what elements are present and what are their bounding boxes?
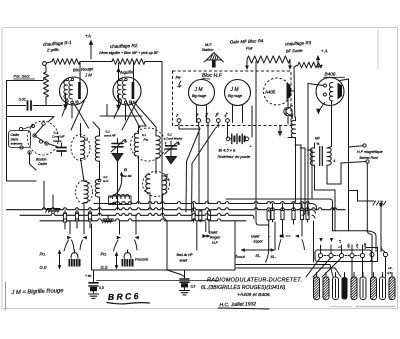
svg-text:B R C 6: B R C 6 xyxy=(108,291,139,302)
wire switch to coil xyxy=(48,144,58,148)
resistor stub I xyxy=(282,204,284,211)
ground C2 xyxy=(184,288,186,290)
arrow V2 cathode xyxy=(118,95,120,106)
ground C1 xyxy=(93,291,95,293)
grid coil box xyxy=(109,196,132,205)
wire V2 plate lead xyxy=(133,62,135,83)
push button 2 xyxy=(124,253,131,259)
wire HT line to ground xyxy=(226,198,330,200)
svg-text:+ 4o: + 4o xyxy=(85,274,92,278)
MF stub symbol xyxy=(207,53,222,61)
capacitor C 0.5 no1 xyxy=(93,270,95,282)
rotary switch cadre xyxy=(28,121,59,155)
strip labels xyxy=(319,238,322,242)
wire bundle to bus xyxy=(295,138,297,201)
svg-text:Pot. Secr.: Pot. Secr. xyxy=(14,74,31,79)
wire +A bus xyxy=(80,61,112,63)
svg-text:Cadre: Cadre xyxy=(53,139,62,143)
wire bend x256 xyxy=(256,222,269,225)
wire CV1 drop xyxy=(117,162,119,210)
svg-text:Galet: Galet xyxy=(209,231,218,235)
svg-text:Coup: Coup xyxy=(292,113,294,119)
wire bundle jogs top xyxy=(288,137,296,139)
resistor stub F xyxy=(208,210,210,211)
wire x268 down xyxy=(268,226,270,249)
svg-text:+A409 et B408.: +A409 et B408. xyxy=(237,292,271,298)
variable capacitor CV2 xyxy=(170,141,172,145)
left margin mark xyxy=(5,282,7,310)
coil L7 xyxy=(146,174,150,192)
resistor stub E xyxy=(199,210,201,211)
wire pile plus lead xyxy=(251,106,253,137)
tube V4 JM xyxy=(225,80,251,106)
svg-text:l’intérieur du poste: l’intérieur du poste xyxy=(218,154,251,159)
wire bus line 4 xyxy=(40,219,246,221)
wire L3 top xyxy=(99,129,101,136)
terminal strip xyxy=(315,250,372,262)
svg-text:6L.(3BIGRILLES ROUGES)(1941N): 6L.(3BIGRILLES ROUGES)(1941N) xyxy=(201,285,286,291)
wire heater link xyxy=(100,115,142,117)
resistor stub L xyxy=(307,204,309,211)
wire drops left xyxy=(43,181,45,210)
svg-text:Boul du HP: Boul du HP xyxy=(177,253,194,257)
wire R4 leads xyxy=(246,60,248,67)
wire diagonal drop 1 xyxy=(186,127,200,212)
wire R2 to dropper xyxy=(145,61,162,63)
svg-text:Écout: Écout xyxy=(235,254,246,259)
resistor R3 xyxy=(298,62,322,68)
svg-text:Regen: Regen xyxy=(210,236,220,240)
ground left chassis xyxy=(52,206,54,208)
wire V6 cathode down xyxy=(331,102,333,147)
grid coil horizontal xyxy=(112,195,129,199)
wire xfmr to terminals xyxy=(315,189,336,191)
svg-text:B406: B406 xyxy=(325,72,336,77)
potentiometer vertical resistor xyxy=(44,72,49,97)
wire strip diagonals xyxy=(306,258,321,277)
svg-text:Aiguille: Aiguille xyxy=(119,69,134,75)
resistor stub B xyxy=(76,210,78,212)
svg-text:4,5: 4,5 xyxy=(387,271,392,275)
tube V6 B406 xyxy=(316,78,344,106)
resistor stub G xyxy=(268,210,270,211)
wire L6 top xyxy=(155,127,157,136)
wire L7-L8 bottoms xyxy=(149,193,151,210)
wire L3-L4 xyxy=(99,161,101,180)
wire V1 pin leads xyxy=(62,102,68,116)
tube V3 JM xyxy=(189,80,215,106)
wire L6 bottom xyxy=(155,158,157,174)
svg-text:Ẹt: Ẹt xyxy=(124,168,127,172)
arrow V2 grid return xyxy=(118,63,120,80)
svg-text:M.F.: M.F. xyxy=(205,43,212,47)
svg-text:antennes: antennes xyxy=(11,142,23,146)
switch lever xyxy=(35,136,47,144)
wire coupling xyxy=(295,117,297,121)
wire L5 bottom xyxy=(138,156,140,204)
svg-text:⅓: ⅓ xyxy=(317,142,320,146)
coil L3 xyxy=(95,136,99,161)
svg-text:J M: J M xyxy=(194,87,204,93)
ground top right xyxy=(357,199,359,201)
svg-text:Big rouge: Big rouge xyxy=(192,94,206,98)
wire bus line 2 xyxy=(7,208,346,210)
svg-text:...: ... xyxy=(268,234,271,238)
svg-text:G.O: G.O xyxy=(103,179,109,183)
arrow Po-GO 2 xyxy=(116,255,118,266)
resistor R4 xyxy=(247,56,290,63)
variable capacitor CV1 xyxy=(117,139,119,144)
wire frame bottom xyxy=(7,180,37,182)
wire bus line 1 xyxy=(94,202,312,204)
svg-text:+120: +120 xyxy=(363,243,367,249)
svg-text:-4: -4 xyxy=(333,159,336,163)
oscillator coil pair PA dashed xyxy=(131,128,166,161)
node antenna terminal xyxy=(43,62,47,66)
svg-text:0,1: 0,1 xyxy=(142,133,146,137)
svg-text:Bloc H.F: Bloc H.F xyxy=(202,73,223,79)
coil L1 in dashed ellipse xyxy=(71,135,90,161)
svg-text:Pe: Pe xyxy=(176,75,182,80)
wire V1 plate lead xyxy=(79,62,81,83)
wire diagonal drop 2 xyxy=(192,127,217,212)
switch contact PO 2 xyxy=(83,215,85,234)
terminal circle right xyxy=(383,252,387,256)
battery cells xyxy=(314,277,320,300)
arrow V1 cathode xyxy=(65,93,67,105)
svg-text:H.P magnétique: H.P magnétique xyxy=(357,150,383,154)
arrow Po-GO 1 xyxy=(59,253,61,266)
svg-text:Bouton: Bouton xyxy=(36,158,47,162)
wire strip left edge xyxy=(313,221,315,262)
resistor stub H xyxy=(272,204,274,211)
ground bloc right xyxy=(279,126,281,132)
chassis box switches xyxy=(92,222,236,270)
resistor stub K xyxy=(301,204,303,211)
ecoute arrow xyxy=(242,249,274,251)
svg-text:H.P: H.P xyxy=(212,241,219,245)
svg-text:Cadre: Cadre xyxy=(38,162,47,166)
HP terminals xyxy=(363,144,366,147)
coil pair GO dashed xyxy=(143,172,170,197)
wire left rail xyxy=(6,81,8,182)
svg-text:Cond Modul: Cond Modul xyxy=(166,137,183,141)
svg-text:J M: J M xyxy=(84,73,92,78)
wire terminal drops right xyxy=(207,127,209,204)
capacitor C 0.5 no2 xyxy=(184,270,186,278)
svg-text:+ A: + A xyxy=(321,49,328,54)
svg-text:Espot: Espot xyxy=(254,240,264,244)
galet regen arrows xyxy=(196,222,198,250)
wire battery harness xyxy=(236,264,330,266)
svg-text:Station: Station xyxy=(202,48,214,52)
wire long drop x162 xyxy=(161,62,163,204)
battery pile 4.5V xyxy=(226,137,230,141)
svg-text:0,01: 0,01 xyxy=(19,98,26,102)
wire strip feeders xyxy=(333,230,367,232)
svg-text:G.0: G.0 xyxy=(40,265,48,270)
svg-text:0,5: 0,5 xyxy=(99,286,104,290)
push button 1 xyxy=(71,253,78,259)
wire pot feed xyxy=(7,80,44,82)
svg-text:Pa: Pa xyxy=(144,138,148,142)
svg-text:+6 .: +6 . xyxy=(388,266,393,270)
svg-text:avant: avant xyxy=(180,259,188,263)
bloc HF dashed box xyxy=(173,71,292,126)
bloc terminals xyxy=(177,119,181,123)
svg-text:Pull: Pull xyxy=(246,47,252,51)
resistor R2 xyxy=(112,59,145,65)
svg-text:Galet: Galet xyxy=(251,235,260,239)
svg-text:Bornes Ficrd: Bornes Ficrd xyxy=(360,156,378,160)
coil L8 xyxy=(163,176,167,194)
galet arrows mid xyxy=(279,234,284,238)
coil L6 xyxy=(156,136,160,158)
switch contact PO 1 xyxy=(69,221,71,234)
svg-text:+4v: +4v xyxy=(355,243,359,248)
svg-text:0,5: 0,5 xyxy=(191,285,196,289)
coil L4 xyxy=(95,179,99,197)
ground mid chassis xyxy=(107,215,109,218)
wire L5 top xyxy=(138,126,140,134)
coil L5 xyxy=(134,133,138,156)
wire V3 pin ticks xyxy=(196,105,198,123)
capacitor cadre xyxy=(61,143,63,147)
wire bus right bends xyxy=(312,204,317,211)
svg-text:6L.: 6L. xyxy=(271,254,277,259)
wire bus line 3 xyxy=(20,213,252,215)
svg-text:+4: +4 xyxy=(338,239,342,243)
wire V1 cross X xyxy=(73,101,89,128)
arrow Et Bloc MF xyxy=(110,175,122,198)
coil L2 dashed xyxy=(76,181,93,204)
svg-text:A405: A405 xyxy=(264,90,276,95)
strip side bracket xyxy=(366,248,378,262)
wire mid vertical x256 xyxy=(255,62,257,223)
resistor stub A xyxy=(64,210,66,213)
switch contact GO 1 xyxy=(119,221,121,234)
wire V4 pin ticks xyxy=(232,105,234,123)
svg-text:chauffage R2.: chauffage R2. xyxy=(110,43,139,49)
tube V5 A405 dashed xyxy=(264,78,291,105)
svg-text:RADIOMODULATEUR-DUCRETET.: RADIOMODULATEUR-DUCRETET. xyxy=(207,278,302,284)
wire pot bottom xyxy=(45,97,47,106)
V5 plate bar xyxy=(287,83,291,100)
wire switch drop xyxy=(29,153,31,165)
wire xfmr leads xyxy=(314,143,316,148)
ground CV1 xyxy=(112,154,123,162)
svg-text:Big rouge: Big rouge xyxy=(228,94,242,98)
strip connection ticks xyxy=(320,245,322,253)
svg-text:Fo: Fo xyxy=(84,138,88,142)
svg-text:Bloc MF: Bloc MF xyxy=(122,174,133,178)
resistor stub D xyxy=(193,204,195,212)
svg-text:5L.: 5L. xyxy=(256,253,262,258)
wire HP leads xyxy=(349,146,363,147)
svg-text:G.0: G.0 xyxy=(101,265,109,270)
wire V2 pin leads xyxy=(114,103,121,118)
box cadre serre antennes xyxy=(9,131,31,148)
wire frame top link xyxy=(7,116,55,118)
wire cap link xyxy=(97,279,219,281)
wire L1-L2 xyxy=(81,159,85,182)
svg-text:+80: +80 xyxy=(347,243,351,248)
detector diode xyxy=(284,107,292,115)
wire V2 cross X xyxy=(126,100,141,128)
svg-text:BF Sortie: BF Sortie xyxy=(286,48,304,54)
resistor R1 xyxy=(52,59,80,65)
resistor stub J xyxy=(293,204,295,211)
wire bloc terminal drops xyxy=(179,122,199,134)
svg-text:cond HF: cond HF xyxy=(104,134,117,138)
svg-text:Poussoir: Poussoir xyxy=(135,258,149,262)
footer watermark xyxy=(330,306,352,308)
node coil tap xyxy=(98,179,101,182)
capacitor 0.01 xyxy=(7,105,26,107)
paper fold line xyxy=(377,30,379,69)
wire R3 left drop xyxy=(293,67,296,117)
ground CV2 xyxy=(166,157,177,165)
resistor stub C xyxy=(89,210,91,212)
switch contact GO 2 xyxy=(135,215,137,234)
arrow +A supply 1 xyxy=(90,43,92,59)
svg-text:+A: +A xyxy=(85,34,91,40)
wire R3 leads xyxy=(294,65,298,67)
svg-text:Po.: Po. xyxy=(40,252,46,257)
svg-text:Po.: Po. xyxy=(101,252,107,257)
wire R1 lead xyxy=(46,62,52,64)
wire V6 plate to output xyxy=(340,79,349,81)
wire V6 left pins xyxy=(308,84,324,86)
svg-text:2éme aiguille + Bloc MF + pick: 2éme aiguille + Bloc MF + pick-up BF xyxy=(98,51,159,55)
ground arrow V6 xyxy=(320,103,325,111)
coupling coil xyxy=(291,120,295,137)
svg-text:Bl 4,5 v à: Bl 4,5 v à xyxy=(219,148,236,153)
svg-text:J M: J M xyxy=(230,87,240,93)
